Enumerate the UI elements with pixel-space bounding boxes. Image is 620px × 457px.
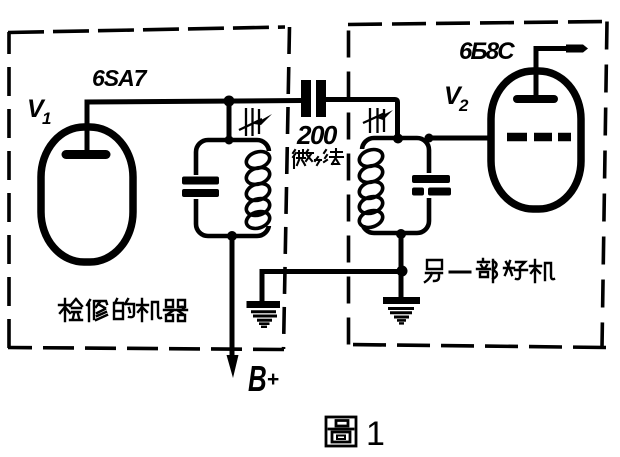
svg-text:1: 1	[42, 109, 51, 128]
svg-text:200: 200	[296, 120, 338, 150]
svg-text:+: +	[267, 368, 279, 391]
svg-text:6Б8C: 6Б8C	[459, 38, 515, 65]
svg-text:6SA7: 6SA7	[92, 65, 148, 91]
svg-text:2: 2	[458, 96, 469, 115]
svg-text:B: B	[248, 359, 267, 399]
svg-text:1: 1	[366, 415, 385, 453]
